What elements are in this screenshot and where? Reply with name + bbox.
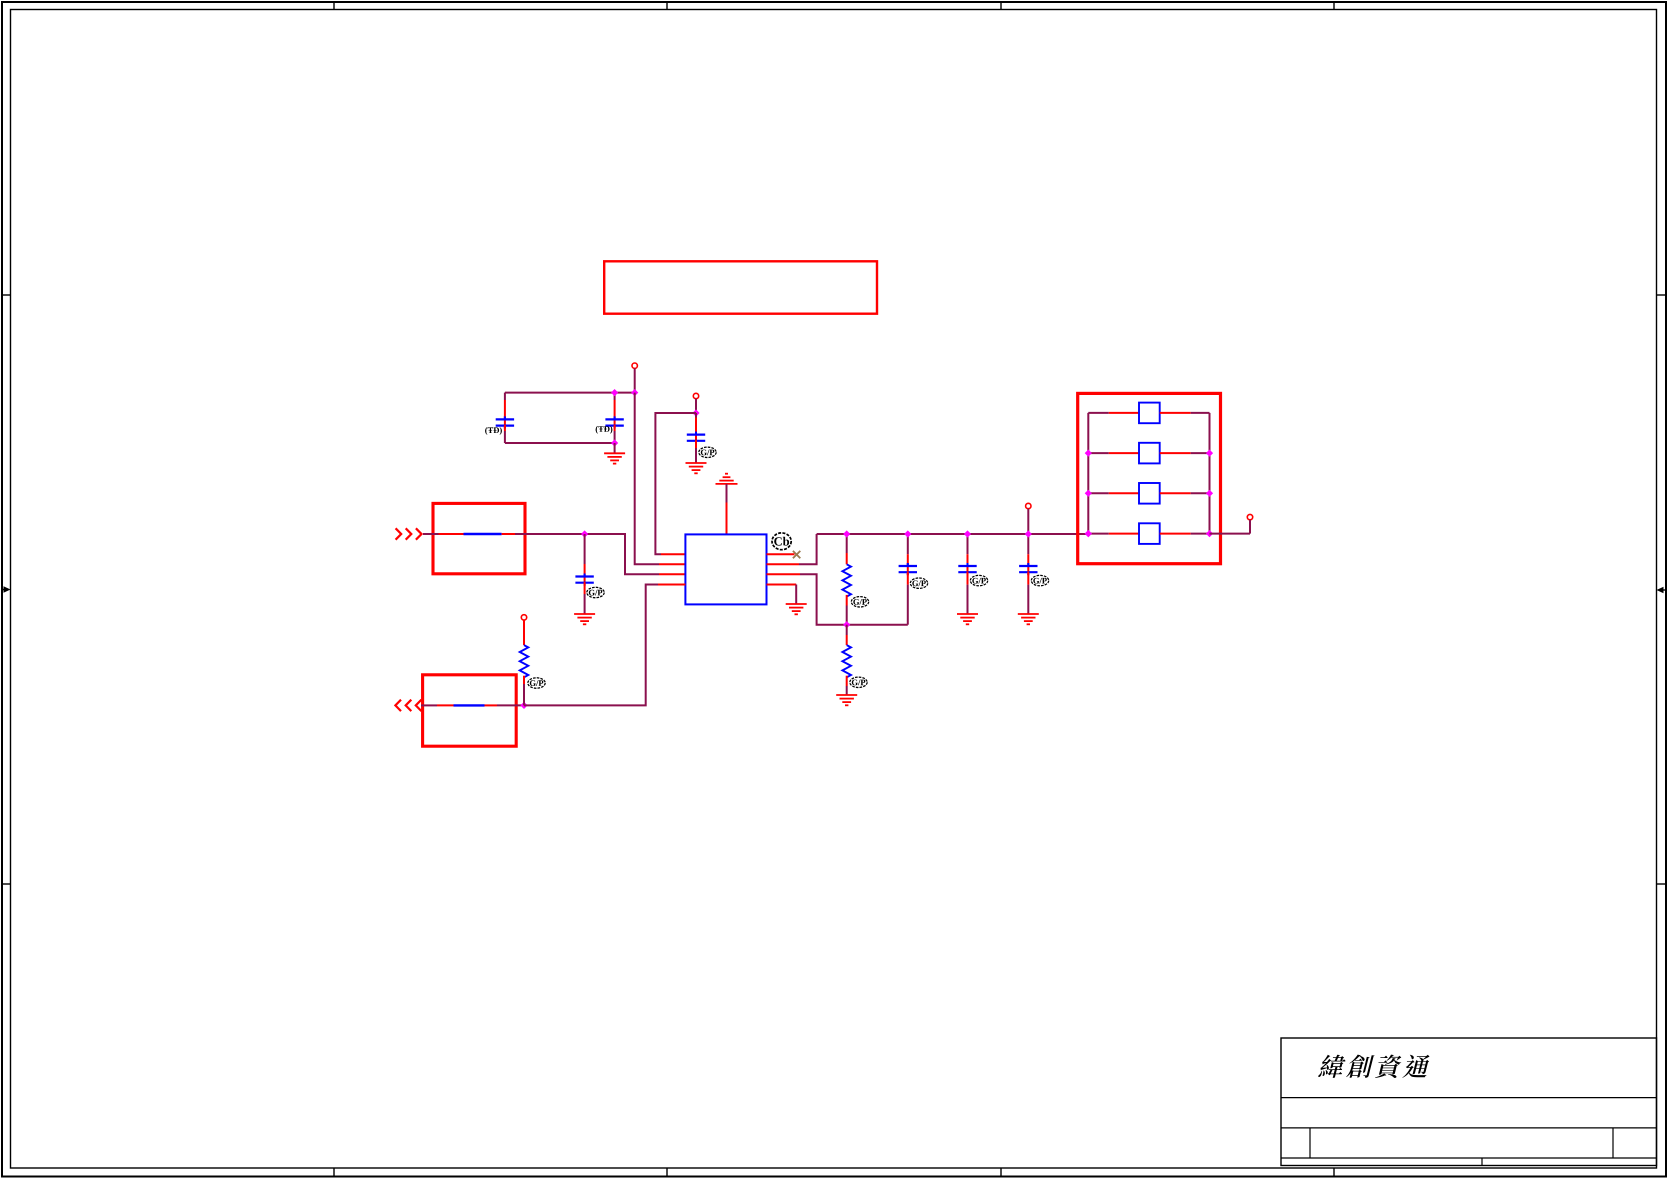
red highlight box around F1 (input) — [433, 503, 525, 573]
ferrite bead FB3 pin 1 — [1109, 492, 1139, 494]
capacitor C2 — [605, 400, 623, 431]
wire - C1 bottom stub — [504, 431, 506, 443]
value label R2 — [850, 677, 867, 687]
ground (C4) — [574, 614, 595, 624]
IC U1 pin 6 stub (right) — [767, 573, 801, 575]
title block — [1281, 1038, 1657, 1166]
wire - FB1 to right bus — [1191, 412, 1210, 414]
capacitor C1 — [496, 400, 514, 431]
ferrite bead FB3 body — [1139, 483, 1160, 504]
junction FB right bus — [1206, 450, 1213, 457]
red highlight box around F2 — [423, 675, 517, 746]
wire - T4 stub — [1249, 520, 1251, 534]
empty red annotation box (top) — [604, 261, 877, 313]
junction rail-C5 — [904, 530, 911, 537]
wire - F2 to node D — [497, 704, 524, 706]
wire - rail to C6 — [967, 534, 969, 554]
wire - pin 6 to bottom rail — [800, 574, 847, 625]
fuse F2 body — [454, 704, 485, 706]
wire - C4 to ground — [584, 594, 586, 614]
junction rail into FB bank — [1085, 530, 1092, 537]
wire - node A down to C4 — [584, 534, 586, 564]
junction FB right bus — [1206, 530, 1213, 537]
terminal T5 — [521, 615, 526, 620]
wire - port to F2 — [421, 704, 437, 706]
fuse F2 pin 2 — [485, 704, 498, 706]
wire - FB right bus — [1209, 413, 1211, 534]
op-amp U1 body — [685, 534, 766, 604]
IC U1 pin 8 stub (right, NC) — [767, 553, 795, 555]
IC U1 pin 7 stub (right) — [767, 563, 800, 565]
reference bubble U1 — [772, 533, 791, 550]
wire - node B down to C3 — [695, 413, 697, 418]
wire - top rail of C1/C2 — [505, 392, 635, 394]
IC U1 pin 5 stub (right) — [767, 584, 797, 586]
wire - C3 to ground — [695, 448, 697, 463]
red highlight box around FB1-FB4 — [1078, 393, 1221, 563]
ground (pin 5) — [786, 604, 807, 614]
capacitor C3 — [687, 418, 705, 449]
junction node C — [843, 621, 850, 628]
wire - rail to R1 — [846, 534, 848, 553]
wire - FB left bus — [1087, 413, 1089, 534]
resistor R1 — [842, 553, 851, 606]
junction FB right bus — [1206, 490, 1213, 497]
ground (R2) — [836, 695, 857, 705]
value label R3 — [528, 678, 545, 688]
junction node A — [581, 530, 588, 537]
IC U1 pin 1 stub (left) — [661, 553, 685, 555]
ferrite bead FB1 pin 2 — [1160, 412, 1191, 414]
junction FB left bus — [1085, 490, 1092, 497]
ferrite bead FB2 pin 2 — [1160, 452, 1191, 454]
value label C1 — [485, 427, 502, 435]
terminal T3 — [1026, 503, 1031, 508]
wire - node A to corner — [585, 534, 659, 574]
IC U1 pin 3 stub (left) — [659, 573, 685, 575]
port arrows OUT1 (<<<) — [395, 700, 421, 711]
wire - node D to IC pin 4 riser — [524, 585, 658, 706]
fuse F1 pin 2 — [502, 533, 515, 535]
fuse F2 pin 1 — [437, 704, 454, 706]
IC U1 pin 4 stub (left) — [658, 584, 685, 586]
wire - C6 to ground — [967, 585, 969, 614]
ferrite bead FB4 pin 1 — [1109, 533, 1139, 535]
no-connect X — [793, 551, 800, 558]
wire - R3 to node D — [523, 684, 525, 705]
wire - left bus to FB3 — [1088, 492, 1109, 494]
wire - input to F1 — [423, 533, 439, 535]
wire - left bus to FB2 — [1088, 452, 1109, 454]
junction rail-R1 — [843, 530, 850, 537]
value label C4 — [587, 587, 604, 597]
wire - pin 7 to rail riser — [799, 534, 817, 564]
wire - FB2 to right bus — [1191, 452, 1210, 454]
IC U1 pin 2 stub (left) — [659, 563, 685, 565]
wire - pin 5 to ground — [795, 585, 797, 604]
ground (C3) — [686, 463, 707, 473]
ferrite bead FB4 pin 2 — [1160, 533, 1191, 535]
wire - rail to C7 — [1027, 534, 1029, 554]
wire - C2 bottom stub — [614, 431, 616, 443]
wire - C5 to bottom rail — [907, 585, 909, 625]
ground (C7) — [1018, 614, 1039, 624]
terminal T4 (output) — [1247, 514, 1252, 519]
junction C2 top — [611, 389, 618, 396]
wire - bottom rail C1 to C2 — [505, 442, 615, 444]
resistor R3 — [520, 620, 529, 684]
wire - C2 top stub — [614, 393, 616, 400]
ferrite bead FB4 body — [1139, 523, 1160, 544]
fuse F1 body — [464, 533, 502, 535]
wire - left bus to FB1 — [1088, 412, 1109, 414]
wire - T2 down to node B — [695, 399, 697, 413]
ferrite bead FB2 pin 1 — [1109, 452, 1139, 454]
wire - node C to R2 — [846, 625, 848, 635]
power flag (IC top) — [716, 474, 738, 484]
value label C2 — [596, 426, 613, 434]
wire - bottom rail to C5 foot — [847, 624, 908, 626]
wire - C2 bottom to ground — [614, 443, 616, 453]
junction node B — [692, 409, 699, 416]
wire - C1 top stub — [504, 393, 506, 400]
ferrite bead FB2 body — [1139, 443, 1160, 464]
resistor R2 — [842, 635, 851, 686]
wire - rail to C5 — [907, 534, 909, 554]
junction C2 bottom — [611, 439, 618, 446]
wire - vertical T1 rail to IC pin 2 — [635, 393, 659, 565]
ferrite bead FB1 pin 1 — [1109, 412, 1139, 414]
fuse F1 pin 1 — [439, 533, 464, 535]
junction FB left bus — [1085, 530, 1092, 537]
capacitor C7 — [1019, 554, 1037, 584]
wire - T1 down to rail — [634, 368, 636, 392]
value label C6 — [970, 575, 987, 585]
wire - node B left and down to IC pin 1 — [655, 413, 696, 554]
ferrite bead FB1 body — [1139, 403, 1160, 424]
junction rail-C7 — [1025, 530, 1032, 537]
port arrows IN1 (>>>) — [396, 528, 422, 539]
ground (C6) — [957, 614, 978, 624]
capacitor C4 — [575, 564, 593, 594]
capacitor C6 — [958, 554, 976, 584]
IC U1 power pin stub (top) — [726, 503, 728, 535]
value label C5 — [910, 578, 927, 588]
junction rail-C6 — [964, 530, 971, 537]
ferrite bead FB3 pin 2 — [1160, 492, 1191, 494]
ground (C1/C2) — [604, 453, 625, 463]
wire - left bus to FB4 — [1088, 533, 1109, 535]
wire - main rail — [817, 533, 1089, 535]
wire - FB bank output — [1210, 533, 1251, 535]
value label R1 — [851, 597, 868, 607]
wire - T3 to rail — [1027, 509, 1029, 534]
value label C3 — [699, 447, 716, 457]
wire - FB4 to right bus — [1191, 533, 1210, 535]
wire - R2 to ground — [846, 686, 848, 695]
terminal T1 — [632, 363, 637, 368]
wire - FB3 to right bus — [1191, 492, 1210, 494]
value label C7 — [1031, 575, 1048, 585]
terminal T2 — [693, 393, 698, 398]
junction node D — [520, 702, 527, 709]
wire - R1 to node C — [846, 606, 848, 625]
wire - F1 to node A — [515, 533, 585, 535]
wire - C7 to ground — [1027, 585, 1029, 614]
junction FB left bus — [1085, 450, 1092, 457]
junction T1 rail — [631, 389, 638, 396]
wire - power flag to IC — [726, 484, 728, 503]
capacitor C5 — [899, 554, 917, 584]
